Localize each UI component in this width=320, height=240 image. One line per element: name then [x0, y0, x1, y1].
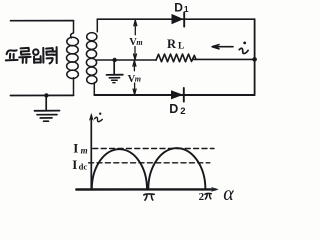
svg-text:m: m: [136, 38, 142, 47]
resistor RL: [156, 54, 196, 62]
arrow Vm lower: [133, 61, 136, 95]
svg-text:2: 2: [180, 106, 185, 117]
wire ground stub left: [45, 95, 47, 110]
wire primary top lead: [11, 20, 74, 22]
diode D1: [172, 12, 185, 26]
syllable ryu: [21, 48, 30, 55]
diode D2: [171, 88, 184, 102]
svg-text:I: I: [73, 141, 78, 156]
ground symbol left: [35, 111, 60, 122]
junction dot primary-ground: [44, 93, 48, 97]
ground symbol center: [107, 75, 123, 83]
wire resistor to bus: [193, 58, 255, 60]
dashed line Im: [93, 148, 214, 150]
wire center tap: [97, 59, 157, 61]
label AC input (Korean 교류입력): [6, 47, 57, 63]
svg-text:R: R: [167, 37, 177, 51]
svg-text:α: α: [223, 183, 234, 205]
junction dot center tap ground: [112, 58, 116, 62]
svg-text:m: m: [135, 75, 141, 84]
svg-text:m: m: [81, 145, 88, 155]
svg-text:2: 2: [199, 191, 205, 203]
transformer primary winding: [67, 21, 79, 96]
wire secondary top rail: [97, 18, 254, 20]
svg-text:1: 1: [184, 4, 189, 14]
wire ground stub center: [113, 60, 115, 74]
svg-text:D: D: [174, 0, 183, 14]
junction dot right bus: [252, 57, 257, 62]
label pi: [144, 194, 154, 200]
svg-text:D: D: [169, 102, 178, 116]
plot x-axis: [76, 188, 215, 191]
syllable ip: [33, 49, 38, 54]
svg-text:I: I: [72, 157, 77, 172]
wire primary bottom lead: [11, 94, 74, 96]
dashed line Idc: [89, 162, 210, 164]
arrow current i: [212, 45, 233, 49]
label i axis: [95, 113, 103, 122]
svg-text:dc: dc: [79, 162, 88, 172]
syllable gyo: [7, 50, 17, 54]
svg-text:L: L: [178, 42, 184, 52]
curve hump 2: [148, 148, 205, 189]
wire right bus: [254, 19, 256, 95]
syllable ryeok: [46, 48, 53, 55]
label i current: [239, 42, 248, 54]
transformer secondary winding: [86, 19, 97, 95]
wire secondary bottom rail: [94, 94, 254, 96]
curve hump 1: [92, 149, 147, 189]
arrow Vm upper: [134, 20, 137, 59]
plot y-axis: [90, 116, 92, 190]
